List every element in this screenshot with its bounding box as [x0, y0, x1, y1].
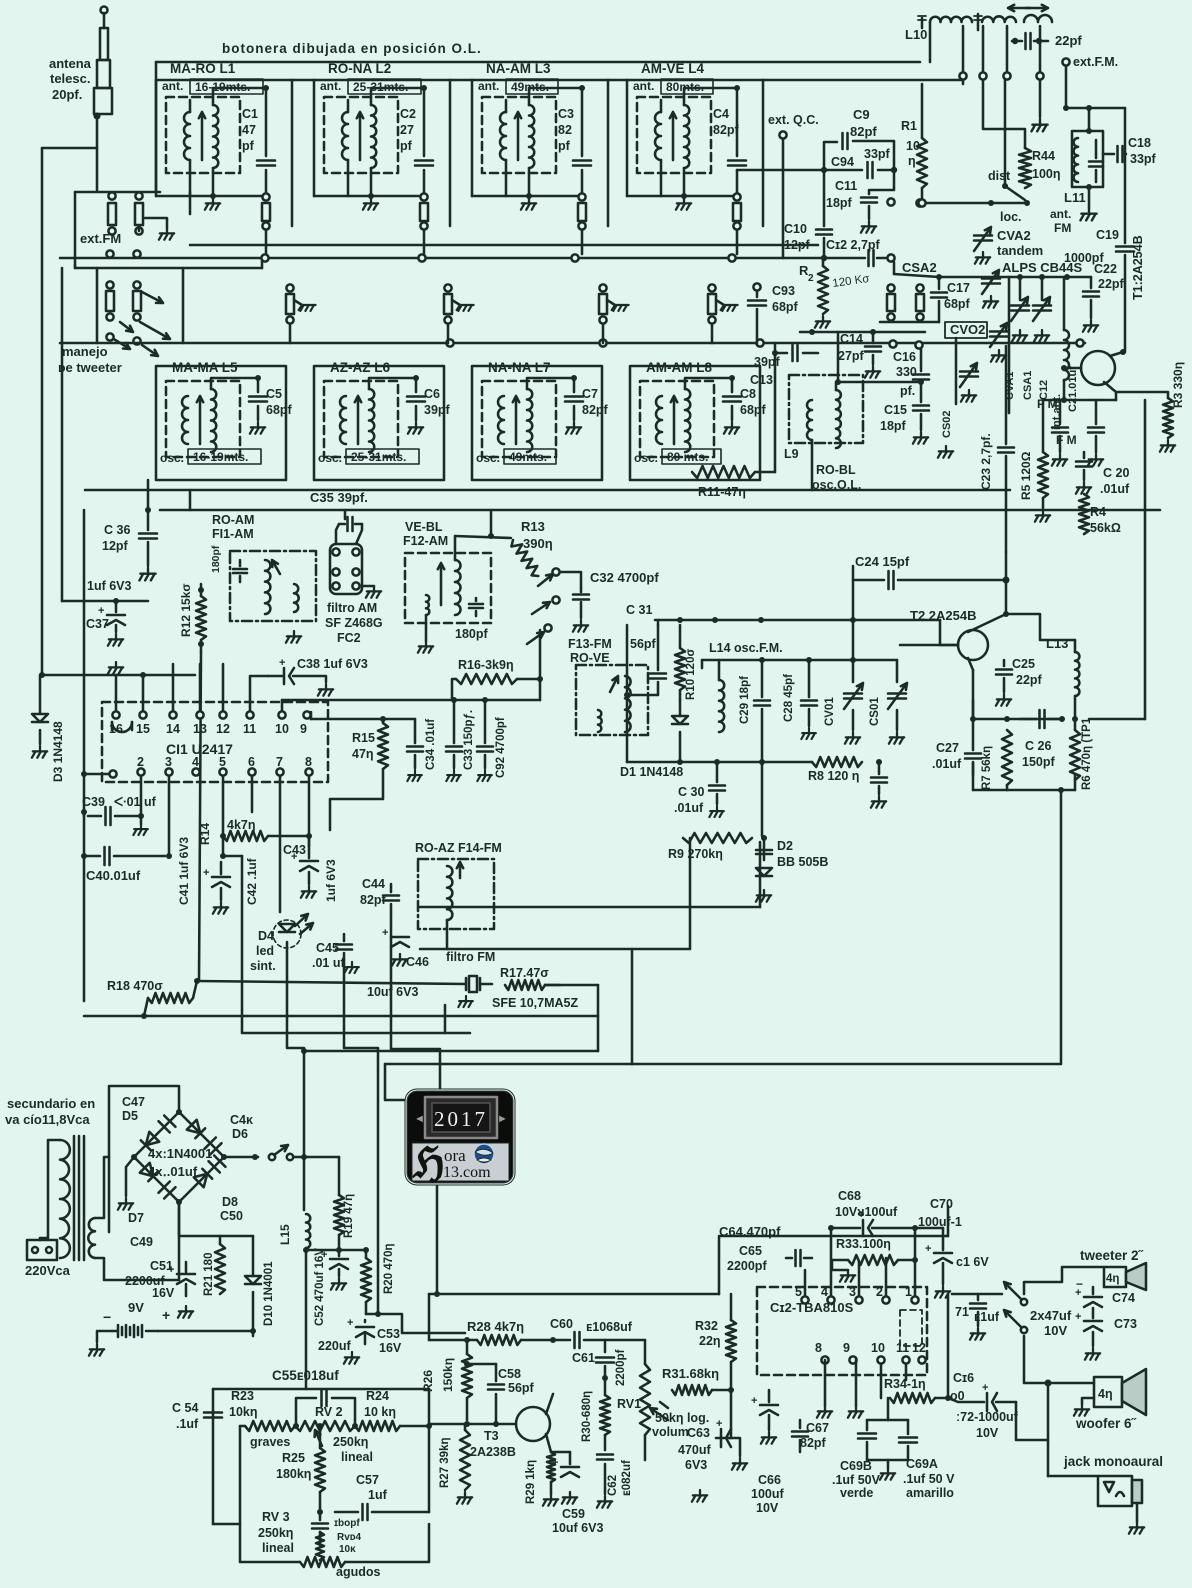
svg-text:C 26: C 26	[1025, 739, 1051, 753]
bridge frame rect	[109, 1086, 179, 1232]
grounds TBA	[817, 1406, 832, 1418]
resistor R11 47ohm	[692, 466, 755, 478]
switch poles band2	[286, 284, 293, 291]
bridge rectifier diamond	[134, 1112, 224, 1202]
wire AM-VE L4 pin row	[627, 195, 733, 198]
svg-text:1: 1	[905, 1285, 912, 1299]
svg-text:4: 4	[821, 1285, 828, 1299]
svg-text:D2: D2	[777, 839, 793, 853]
svg-text:CS01: CS01	[869, 697, 881, 726]
inductor AM-AM L8 dashed box	[640, 381, 714, 457]
diode D1 1N4148	[672, 716, 688, 724]
inductor RO-NA L2 dashed box	[324, 97, 398, 173]
svg-text:C61: C61	[572, 1351, 595, 1365]
capacitor R8 bypass	[878, 762, 881, 774]
svg-text:C 20: C 20	[1103, 466, 1129, 480]
wire NA-AM L3 top	[505, 100, 508, 112]
svg-text:R1: R1	[901, 119, 917, 133]
wire node B to CSA2 row	[894, 274, 939, 277]
inductor NA-NA L7 secondary coil	[527, 389, 532, 452]
wire C4 pin to bus	[736, 230, 739, 254]
inductor NA-NA L7 dashed box	[482, 381, 556, 457]
resistor R8 120	[812, 757, 862, 767]
wire ant bus bridges	[292, 79, 314, 82]
inductor FI1 small coil	[294, 584, 299, 612]
svg-text:C10: C10	[784, 222, 807, 236]
svg-text:C46: C46	[406, 955, 429, 969]
plug 220Vca	[27, 1240, 57, 1260]
woofer speaker	[1094, 1377, 1122, 1407]
svg-text:C6: C6	[424, 387, 440, 401]
svg-text:3: 3	[849, 1285, 856, 1299]
wire RO-NA L2 pin row	[314, 195, 420, 198]
svg-text:C 54: C 54	[172, 1401, 198, 1415]
wire right rail mid	[1144, 400, 1147, 719]
svg-text:amarillo: amarillo	[906, 1486, 954, 1500]
svg-text:C11: C11	[835, 179, 857, 193]
svg-text:CI1 U2417: CI1 U2417	[166, 741, 233, 757]
wire C24 left drop	[852, 580, 855, 660]
wire NA-AM L3 bottom	[505, 160, 508, 196]
svg-text:C29 18pf: C29 18pf	[739, 676, 751, 724]
inductor NA-NA L7 arrow	[513, 396, 519, 444]
svg-text:C53: C53	[377, 1327, 400, 1341]
ext FM lower pins	[106, 250, 113, 257]
svg-text:80 mts.: 80 mts.	[667, 450, 708, 464]
svg-text:−: −	[103, 1309, 111, 1325]
svg-text:C7: C7	[582, 387, 598, 401]
svg-text:82pf: 82pf	[850, 124, 877, 139]
svg-text:2200pf: 2200pf	[615, 1349, 627, 1386]
svg-text:.1uf: .1uf	[176, 1417, 199, 1431]
svg-text:C44: C44	[362, 877, 385, 891]
antenna telescopic symbol	[94, 7, 112, 115]
svg-text:47η: 47η	[352, 747, 374, 761]
svg-text:R30-680η: R30-680η	[581, 1391, 593, 1442]
wire MA-RO L1 section frame	[156, 79, 292, 82]
svg-text:secundario en: secundario en	[7, 1096, 95, 1111]
crystal filter FM	[469, 976, 477, 992]
switch contacts R13	[552, 568, 559, 575]
svg-text:8: 8	[815, 1341, 822, 1355]
wire RO-NA L2 top	[347, 100, 350, 112]
svg-text:R25: R25	[282, 1451, 305, 1465]
svg-text:C15: C15	[884, 403, 907, 417]
svg-text:R11-47η: R11-47η	[698, 485, 746, 499]
wire AZ-AZ L6 frame	[314, 366, 444, 480]
svg-text:11: 11	[243, 722, 256, 736]
svg-text:.01 uf: .01 uf	[312, 956, 345, 970]
svg-text:T1:2A254B: T1:2A254B	[1131, 235, 1145, 300]
svg-text:56pf: 56pf	[630, 637, 657, 651]
svg-text:NA-NA L7: NA-NA L7	[488, 360, 551, 375]
svg-text:AM-AM L8: AM-AM L8	[646, 360, 712, 375]
svg-text:FM: FM	[1054, 221, 1071, 235]
ground woofer	[1074, 1404, 1089, 1416]
svg-text:22pf: 22pf	[1055, 33, 1082, 48]
svg-text:.01uf: .01uf	[1100, 482, 1130, 496]
svg-text:10: 10	[275, 722, 289, 736]
svg-text:10V: 10V	[756, 1501, 779, 1515]
resistor R44 100	[1019, 148, 1031, 188]
wire osc bottom rail	[627, 761, 812, 764]
svg-text:C28 45pf: C28 45pf	[783, 674, 795, 722]
svg-text:82pf: 82pf	[713, 123, 740, 137]
svg-text:C23 2,7pf.: C23 2,7pf.	[979, 433, 993, 490]
wire loc row	[916, 199, 923, 206]
capacitor C66 100uf 10V	[768, 1390, 771, 1402]
inductor AZ-AZ L6 arrow	[355, 396, 361, 444]
tone bottom wire	[213, 1523, 240, 1526]
wire AM-VE L4 top	[660, 100, 663, 112]
TBA top pins	[801, 1296, 808, 1303]
svg-text:ᑅ01 uf: ᑅ01 uf	[114, 795, 157, 809]
svg-text:C63: C63	[687, 1426, 710, 1440]
capacitor C3 82 pf	[579, 85, 585, 91]
svg-text:13.com: 13.com	[443, 1164, 491, 1181]
svg-text:ext. Q.C.: ext. Q.C.	[768, 113, 819, 127]
svg-text:C49: C49	[130, 1235, 153, 1249]
svg-text:R29 1kη: R29 1kη	[525, 1460, 537, 1504]
wire T2 collector	[1005, 552, 1008, 614]
svg-text:C59: C59	[562, 1507, 585, 1521]
inductor NA-AM L3 secondary coil	[529, 105, 534, 168]
svg-text:10Vᴚ100uf: 10Vᴚ100uf	[835, 1205, 898, 1219]
wire bundle long right	[632, 790, 1061, 1064]
svg-text:C25: C25	[1012, 657, 1035, 671]
arrow F14	[457, 862, 463, 878]
svg-text:R26: R26	[421, 1370, 435, 1392]
svg-text:telesc.: telesc.	[50, 71, 90, 86]
svg-text:osc.: osc.	[318, 451, 342, 465]
ground R33	[840, 1270, 855, 1282]
svg-text:4η: 4η	[1098, 1387, 1113, 1401]
svg-text:10ᴋ: 10ᴋ	[339, 1544, 356, 1555]
IC CI1 U2417 dashed box	[102, 702, 328, 782]
svg-text:D5: D5	[122, 1109, 138, 1123]
diode D7 and cap C49	[140, 1163, 158, 1181]
arrow F13	[610, 676, 618, 692]
capacitor C93 68pf	[753, 283, 760, 290]
svg-text:ant.: ant.	[1050, 207, 1071, 221]
svg-text:C14: C14	[840, 332, 863, 346]
svg-text:C40.01uf: C40.01uf	[86, 868, 141, 883]
svg-text:25-31mts.: 25-31mts.	[351, 450, 406, 464]
wire antenna down	[96, 114, 99, 190]
svg-text:27pf: 27pf	[838, 349, 865, 363]
svg-text:C45: C45	[316, 941, 339, 955]
svg-text:150pf: 150pf	[1022, 755, 1055, 769]
trimmer CVA2	[974, 234, 992, 237]
ext.FM connector box	[74, 192, 77, 268]
svg-text:L13: L13	[1046, 636, 1068, 651]
ground C5	[250, 422, 265, 434]
wire MA-RO L1 bottom	[189, 160, 192, 196]
svg-text:2: 2	[876, 1285, 883, 1299]
capacitor C6 39pf	[369, 378, 416, 392]
trimmer CVO2b	[960, 370, 978, 373]
svg-text:+: +	[925, 1243, 931, 1255]
wire AM-AM L8 frame	[630, 366, 760, 480]
inductor NA-AM L3 dashed box	[482, 97, 556, 173]
wire R1 top corner	[921, 84, 924, 138]
inductor MA-MA L5 secondary coil	[211, 389, 216, 452]
svg-text:−: −	[1076, 1277, 1083, 1291]
svg-text:C1: C1	[242, 107, 258, 121]
switch tweeter	[1004, 1282, 1022, 1300]
svg-text:33pf: 33pf	[1130, 152, 1157, 166]
RV2 bypass loop with cap	[296, 1398, 316, 1426]
wire CSA2 row	[939, 276, 1091, 279]
svg-text:manejo: manejo	[62, 344, 108, 359]
arrow FI2	[438, 563, 444, 605]
svg-text:F M: F M	[1037, 397, 1058, 411]
wire NA-AM L3 section frame	[472, 79, 608, 82]
wire logo down	[436, 1184, 439, 1294]
inductor MA-RO L1 dashed box	[166, 97, 240, 173]
wire CI1 pin wires up	[115, 675, 118, 711]
svg-text:D6: D6	[232, 1127, 248, 1141]
transformer	[60, 1140, 70, 1258]
svg-text:ext.FM: ext.FM	[80, 231, 121, 246]
wire tweeter	[1024, 1267, 1104, 1294]
svg-text:220Vca: 220Vca	[25, 1263, 71, 1278]
svg-text:10: 10	[871, 1341, 885, 1355]
wire C44 column to logo	[391, 912, 440, 1088]
svg-text:osc.: osc.	[476, 451, 500, 465]
ground jack	[1129, 1522, 1144, 1534]
inductor MA-RO L1 secondary coil	[213, 105, 218, 168]
svg-text:graves: graves	[250, 1435, 290, 1449]
svg-text:C 31: C 31	[626, 603, 652, 617]
wire main horizontal under band2	[85, 489, 1010, 492]
inductor L10	[930, 17, 972, 22]
svg-text:68pf: 68pf	[740, 403, 767, 417]
svg-text:15: 15	[136, 722, 150, 736]
wire T2 emitter bottom	[973, 670, 1062, 719]
wire RO-NA L2 section frame	[314, 79, 450, 82]
wire extOC down	[782, 139, 785, 258]
svg-text:jack monoaural: jack monoaural	[1063, 1454, 1163, 1469]
svg-text:R44: R44	[1032, 149, 1055, 163]
svg-text:C4ᴋ: C4ᴋ	[230, 1113, 253, 1127]
svg-text:R4: R4	[1090, 505, 1106, 519]
svg-text:osc.: osc.	[160, 451, 184, 465]
wire right rail C19	[1124, 108, 1127, 243]
svg-text:4: 4	[192, 755, 199, 769]
capacitor FI2 cap	[475, 598, 478, 601]
svg-text:osc.: osc.	[634, 451, 658, 465]
ground NA-AM L3 coil	[521, 198, 536, 210]
wire bottom rail right	[973, 789, 1075, 792]
svg-text:dist: dist	[988, 169, 1011, 183]
capacitor C2 27 pf	[421, 85, 427, 91]
svg-text:verde: verde	[840, 1486, 873, 1500]
ground C8	[724, 422, 739, 434]
svg-text:6V3: 6V3	[685, 1458, 707, 1472]
svg-text:T3: T3	[484, 1429, 499, 1443]
svg-text:14: 14	[166, 722, 180, 736]
ground C38	[318, 684, 333, 696]
svg-text:C18: C18	[1128, 136, 1151, 150]
inductor AM-AM L8 secondary coil	[685, 389, 690, 452]
ext.FM pins	[108, 192, 115, 199]
capacitor C7 82pf	[527, 378, 574, 392]
svg-text:C21.01uf: C21.01uf	[1067, 366, 1079, 412]
svg-text:22η: 22η	[699, 1334, 721, 1348]
svg-text:L15: L15	[278, 1224, 292, 1245]
svg-text:SF Z468G: SF Z468G	[325, 616, 383, 630]
ground MA-RO L1 coil	[205, 198, 220, 210]
wire TBA pin verticals	[804, 1270, 807, 1296]
svg-text:18pf: 18pf	[826, 196, 853, 210]
svg-text:68pf: 68pf	[944, 297, 971, 311]
capacitor C33 150pf	[453, 700, 456, 743]
svg-text:2017: 2017	[434, 1107, 488, 1131]
resistor R9 wire	[545, 984, 560, 987]
capacitor C34 .01uf	[414, 719, 417, 743]
svg-text:R17.47σ: R17.47σ	[500, 966, 549, 980]
svg-text:AZ-AZ L6: AZ-AZ L6	[330, 360, 390, 375]
svg-text:C39: C39	[82, 795, 105, 809]
svg-text:100uf-1: 100uf-1	[918, 1215, 962, 1229]
svg-text:FI1-AM: FI1-AM	[212, 527, 254, 541]
wire mid column vertical	[83, 510, 86, 1001]
svg-text:C60: C60	[550, 1317, 573, 1331]
wire pin10 to y700 rail	[281, 700, 284, 711]
wire y490 y510 jog	[189, 490, 192, 510]
svg-text:BB 505B: BB 505B	[777, 855, 828, 869]
svg-text:L10: L10	[905, 27, 927, 42]
wire left long vertical	[41, 148, 44, 675]
svg-text:R15: R15	[352, 731, 375, 745]
wire switch feed	[952, 1293, 1002, 1296]
connector pin below C1	[262, 193, 269, 200]
wire L5 down to C36 node	[147, 480, 150, 510]
wire left rail to mid column	[42, 674, 195, 677]
inductor F13 small coil	[598, 710, 602, 732]
resistor R4 56k	[1079, 494, 1089, 534]
svg-text:SFE 10,7MA5Z: SFE 10,7MA5Z	[492, 996, 579, 1010]
svg-text:220uf: 220uf	[318, 1339, 351, 1353]
svg-text:Cɪ2-TBA810S: Cɪ2-TBA810S	[770, 1300, 854, 1315]
svg-text:82pf: 82pf	[800, 1436, 827, 1450]
ground C6	[408, 422, 423, 434]
wire bundle line2	[545, 984, 598, 987]
svg-text:9V: 9V	[128, 1300, 144, 1315]
wire amp routes	[719, 1236, 948, 1294]
svg-text:R3 330η: R3 330η	[1171, 362, 1185, 408]
connector pin below C3	[578, 193, 585, 200]
svg-text:ᴅe tweeter: ᴅe tweeter	[58, 360, 122, 375]
svg-text:ALPS CB44S: ALPS CB44S	[1002, 260, 1083, 275]
wire MA-RO L1 top	[189, 100, 192, 112]
svg-text:ext.F.M.: ext.F.M.	[1073, 55, 1118, 69]
IC C12-TBA810S dashed box	[757, 1287, 927, 1375]
svg-text:C8: C8	[740, 387, 756, 401]
svg-text:+: +	[751, 1395, 757, 1407]
svg-text:pf.: pf.	[900, 384, 915, 398]
wire bundle down verticals	[287, 942, 304, 1210]
svg-text:C70: C70	[930, 1197, 953, 1211]
diode D6 and cap C48	[187, 1120, 205, 1138]
wire pin11 to C38	[250, 676, 268, 711]
wire VE-BL top	[490, 510, 493, 536]
svg-text:+: +	[98, 605, 104, 617]
svg-text:4x․.01uf: 4x․.01uf	[148, 1164, 198, 1179]
svg-text:RV 3: RV 3	[262, 1510, 290, 1524]
wire TBA right	[947, 1294, 950, 1398]
svg-text:10 kη: 10 kη	[364, 1405, 396, 1419]
svg-text:+: +	[279, 657, 285, 669]
inductor FI2 small coil	[426, 595, 429, 615]
svg-text:F12-AM: F12-AM	[403, 534, 448, 548]
wire CI1 bottom pin stubs	[222, 776, 225, 836]
wire y700 rail	[282, 699, 540, 702]
svg-text:18pf: 18pf	[880, 419, 907, 433]
svg-text:2A238B: 2A238B	[470, 1445, 516, 1459]
ground FI1	[286, 631, 301, 643]
wire bundle line3	[385, 1063, 632, 1066]
svg-text:C27: C27	[936, 741, 959, 755]
svg-text:33pf: 33pf	[864, 147, 891, 161]
svg-text:filtro AM: filtro AM	[327, 601, 377, 615]
dashed box RO-BL right	[789, 375, 863, 443]
svg-text:antena: antena	[49, 56, 92, 71]
ground C73	[1085, 1348, 1100, 1360]
svg-text:R33.100η: R33.100η	[836, 1237, 891, 1251]
svg-text:100uf: 100uf	[751, 1487, 784, 1501]
svg-text:R6 470η (TP1: R6 470η (TP1	[1081, 717, 1093, 790]
svg-text:C93: C93	[772, 284, 795, 298]
svg-text:390η: 390η	[523, 536, 553, 551]
wire ext FM down	[1066, 66, 1125, 108]
svg-text:68pf: 68pf	[772, 300, 799, 314]
svg-text:►: ►	[497, 1113, 508, 1125]
svg-text:C42 .1uf: C42 .1uf	[245, 857, 259, 905]
svg-text:+: +	[168, 1264, 174, 1276]
svg-text:CVO2: CVO2	[950, 322, 985, 337]
svg-text:1uf 6V3: 1uf 6V3	[87, 579, 132, 593]
capacitor C1 47 pf	[263, 85, 269, 91]
svg-text:5: 5	[795, 1285, 802, 1299]
svg-text:180pf: 180pf	[210, 545, 222, 573]
svg-text:C65: C65	[739, 1244, 762, 1258]
svg-text:◄: ◄	[414, 1113, 425, 1125]
svg-text:R24: R24	[366, 1389, 389, 1403]
svg-text:C62: C62	[607, 1475, 619, 1496]
svg-text:woofer 6˝: woofer 6˝	[1075, 1416, 1138, 1431]
svg-text:12: 12	[216, 722, 230, 736]
svg-text:C92 4700pf: C92 4700pf	[495, 717, 507, 778]
svg-text:R13: R13	[521, 519, 545, 534]
svg-text:C5: C5	[266, 387, 282, 401]
wire long top route	[429, 1293, 719, 1296]
svg-text:12pf: 12pf	[102, 539, 129, 553]
svg-text:C41 1uf 6V3: C41 1uf 6V3	[177, 837, 191, 905]
wire C1 pin to bus	[265, 230, 268, 254]
svg-text:.1uf 50 V: .1uf 50 V	[903, 1472, 955, 1486]
svg-text:D7: D7	[128, 1211, 144, 1225]
svg-text:+: +	[716, 1418, 722, 1430]
svg-text:C32 4700pf: C32 4700pf	[590, 570, 659, 585]
inductor NA-NA L7 primary coil	[498, 396, 504, 444]
capacitor FI1 180pf	[239, 560, 242, 566]
svg-text:ℌ: ℌ	[412, 1141, 445, 1187]
wires L10 down	[929, 22, 932, 62]
svg-text:D1 1N4148: D1 1N4148	[620, 765, 683, 779]
svg-text:+: +	[291, 851, 297, 863]
